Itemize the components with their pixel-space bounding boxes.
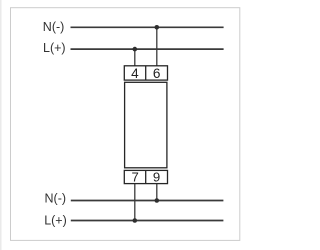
svg-text:N(-): N(-) [45,192,67,206]
svg-text:L(+): L(+) [44,213,67,227]
svg-text:N(-): N(-) [43,20,65,34]
svg-text:9: 9 [153,169,160,184]
svg-text:4: 4 [131,66,139,81]
svg-text:L(+): L(+) [43,41,66,55]
svg-text:6: 6 [153,66,161,81]
svg-text:7: 7 [132,169,139,184]
